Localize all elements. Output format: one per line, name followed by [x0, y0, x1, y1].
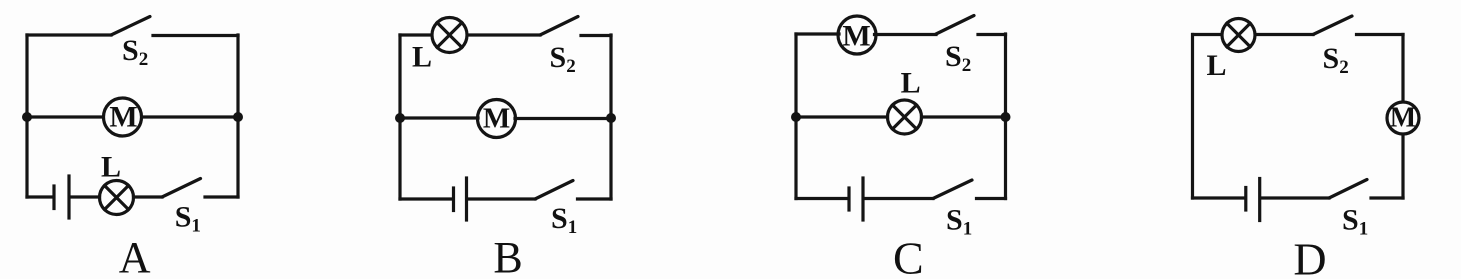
svg-text:L: L: [1207, 49, 1227, 82]
svg-text:L: L: [101, 151, 121, 184]
svg-text:S2: S2: [945, 40, 971, 76]
svg-text:M: M: [842, 20, 870, 53]
svg-text:D: D: [1293, 234, 1326, 279]
svg-text:S2: S2: [1323, 42, 1349, 78]
svg-text:C: C: [893, 233, 924, 279]
svg-text:S1: S1: [946, 204, 972, 240]
svg-text:M: M: [109, 101, 137, 134]
svg-text:S2: S2: [550, 41, 576, 77]
svg-text:M: M: [1390, 103, 1416, 134]
svg-text:L: L: [901, 67, 921, 100]
svg-text:S1: S1: [175, 201, 201, 237]
svg-text:L: L: [412, 41, 432, 74]
svg-text:S1: S1: [1342, 204, 1368, 240]
svg-text:S2: S2: [122, 34, 148, 70]
svg-text:M: M: [483, 103, 510, 135]
svg-text:A: A: [119, 233, 151, 279]
svg-text:B: B: [493, 233, 522, 279]
svg-text:S1: S1: [551, 202, 577, 238]
